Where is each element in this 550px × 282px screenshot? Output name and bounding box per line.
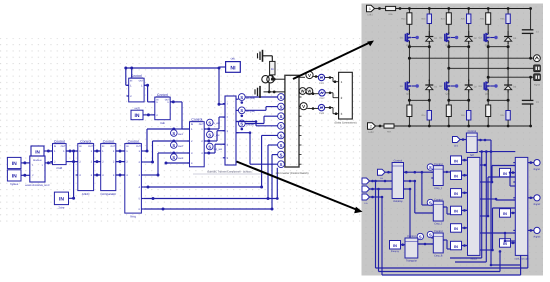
svg-text:Control: Control [54, 139, 65, 143]
output connector Right1 [534, 160, 541, 171]
wire right bus vC [490, 140, 521, 266]
wire mesh h [443, 240, 450, 249]
wire NI vertical [218, 67, 226, 106]
input block IN5 [451, 224, 462, 233]
svg-text:Q2L: Q2L [446, 92, 451, 95]
svg-text:OUT: OUT [199, 123, 204, 126]
wire IN1 out [462, 159, 468, 162]
controlled source inq_ww [207, 143, 223, 151]
wire IN 2cire up [69, 151, 76, 200]
wire IN4 out [462, 209, 468, 212]
transistor Q3L [478, 81, 497, 96]
gray sub-circuit panel background [362, 4, 544, 276]
wire AnDC-Comparator r2 [94, 160, 101, 163]
wire triangular out [418, 243, 434, 246]
input block IN3 [451, 189, 462, 198]
wire AnDC-Comparator r3 [94, 174, 101, 177]
resistor R57 [384, 124, 394, 134]
svg-text:S: S [280, 133, 283, 138]
wire phase line B [449, 67, 534, 70]
svg-text:hystes: hystes [10, 182, 19, 186]
subsystem block gate driver [223, 96, 239, 165]
wire hdf out [477, 139, 491, 142]
wire INm3 out [511, 242, 516, 245]
resistor Rs3b [500, 100, 510, 126]
svg-text:IN: IN [59, 196, 64, 202]
svg-text:IN: IN [130, 79, 133, 82]
caption inverter [275, 172, 308, 175]
svg-text:Modbus: Modbus [33, 159, 42, 162]
wire right bus vB [455, 152, 486, 262]
svg-text:Right3: Right3 [534, 236, 541, 239]
wire row3 net [144, 153, 174, 177]
wire source top [271, 75, 274, 81]
wire driver net b [245, 107, 277, 111]
wire to comparator pin2 [172, 140, 189, 143]
wire phase to inverter [273, 78, 285, 81]
svg-text:S: S [429, 165, 432, 170]
wire comp out3 [204, 144, 225, 154]
svg-text:Q3L: Q3L [485, 92, 490, 95]
resistor R56 [386, 6, 396, 16]
svg-text:freq: freq [131, 214, 137, 218]
svg-text:IN: IN [12, 161, 17, 167]
wire Control1 to Control2 [144, 84, 155, 102]
wire IN3 out [462, 192, 468, 195]
svg-text:S: S [280, 105, 283, 110]
svg-text:S: S [240, 121, 243, 126]
wire leg1 upper [409, 24, 429, 33]
svg-text:Control: Control [103, 139, 114, 143]
wire ADC top out row1 [44, 150, 53, 153]
transistor Q2L [439, 81, 458, 96]
scope probe CH2 [319, 90, 325, 100]
resistor R1 1k [270, 56, 275, 75]
wire leg2 lower rail [447, 92, 470, 102]
wire right bus vA [450, 152, 482, 258]
wire driver net e [236, 120, 278, 126]
svg-text:GaN/SiC Transist Comparison -: GaN/SiC Transist Comparison - Surface.. [207, 171, 253, 174]
diode D3L [504, 80, 517, 93]
subsystem block Control5 Comparator [99, 139, 119, 195]
wire var out1 [404, 171, 434, 174]
svg-text:V: V [302, 104, 305, 109]
wire left bus v3 [382, 197, 521, 275]
svg-text:hdf: hdf [470, 154, 474, 157]
subsystem block Comp_2 [431, 198, 445, 225]
wire to comparator pin1 [172, 128, 189, 131]
wire leg2 diode drop [468, 47, 470, 81]
wire V1 to CH1 [313, 75, 318, 78]
wattmeter W1 [299, 88, 306, 95]
wire leg2 upper [449, 24, 469, 33]
output connector Right2 [534, 195, 541, 206]
wire transformer bottom [268, 83, 270, 92]
svg-text:OBL: OBL [231, 57, 236, 60]
svg-text:IN: IN [454, 245, 458, 249]
resistor Rs2b [461, 100, 471, 126]
wire leg1 lower rail [408, 92, 431, 102]
svg-text:IN: IN [191, 123, 194, 126]
wire bottom return b [499, 250, 502, 271]
transistor Q1H [400, 32, 419, 47]
resistor Rg3a [480, 9, 491, 25]
subsystem block Control1 (filter) [127, 74, 147, 102]
wire to comparator pin4 [165, 162, 190, 165]
controlled source ww1 [171, 129, 184, 136]
resistor Rs1a [407, 100, 412, 126]
svg-text:Control: Control [80, 139, 91, 143]
svg-text:Right2: Right2 [534, 203, 541, 206]
svg-text:IN: IN [35, 150, 40, 155]
input block INm2 [500, 209, 511, 218]
controlled source ww2 [171, 142, 184, 149]
svg-text:IN: IN [454, 192, 458, 196]
svg-text:1: 1 [369, 7, 371, 11]
subsystem block MddS [466, 157, 483, 260]
wire IN uu(t) out [143, 113, 155, 116]
svg-text:S: S [280, 95, 283, 100]
wire driver net d [236, 131, 278, 164]
wire phase B out [298, 93, 301, 95]
wire DC link right [530, 9, 532, 27]
output connector O3 [534, 74, 541, 87]
wire phase C out [298, 108, 301, 110]
wire freq to triangular [401, 243, 406, 246]
inverter subcircuit block (Control Switch) [285, 75, 302, 167]
svg-text:S: S [280, 162, 283, 167]
svg-text:S: S [280, 114, 283, 119]
controlled source s_comp2 [427, 199, 433, 205]
wire row4 long [144, 135, 278, 188]
svg-text:mult: mult [56, 166, 62, 170]
input terminal block IN A (setpoint) [7, 157, 21, 168]
controlled source s_comp1 [427, 164, 433, 170]
svg-text:(Delta Connections): (Delta Connections) [334, 122, 356, 125]
subsystem block hdf [464, 130, 479, 157]
wire IN B out [21, 174, 30, 177]
svg-text:S: S [172, 155, 175, 160]
svg-text:V: V [308, 73, 311, 78]
svg-text:S: S [208, 132, 211, 137]
svg-text:2: 2 [370, 124, 372, 128]
svg-text:Q1L: Q1L [406, 92, 411, 95]
wire mult to AnDC r1 [66, 150, 78, 153]
svg-text:S: S [240, 108, 243, 113]
subsystem block Comp_B [431, 230, 445, 257]
svg-text:S: S [419, 234, 422, 239]
input block IN4 [451, 206, 462, 215]
subsystem block Control7 PWM comparator [187, 118, 206, 167]
arrow callout to control panel [237, 162, 363, 214]
resistor Rs3a [486, 100, 491, 126]
controlled source WF(yW) [238, 107, 255, 117]
wire S8 drop [276, 168, 279, 200]
svg-text:IN: IN [454, 210, 458, 214]
NI block U1 [226, 57, 241, 72]
wire mesh e [509, 171, 516, 186]
svg-text:r_ww: r_ww [213, 134, 219, 137]
svg-text:IN: IN [503, 212, 507, 216]
svg-text:OUT: OUT [110, 145, 115, 148]
wire CH2 to delta pin2 [325, 92, 338, 98]
svg-text:Inq_ww: Inq_ww [214, 148, 223, 151]
resistor Rd2a [461, 9, 471, 24]
svg-text:S: S [172, 143, 175, 148]
wire bottom return a [527, 255, 529, 268]
svg-text:OUT: OUT [139, 79, 144, 82]
input connector Lin2 [378, 169, 393, 180]
input block IN1 [451, 156, 462, 165]
wire comp out2 [204, 131, 225, 143]
svg-text:S: S [280, 143, 283, 148]
wire out1 [528, 161, 534, 164]
capacitor C2 [522, 77, 540, 126]
input block Frequency IN [390, 241, 401, 254]
svg-text:S: S [240, 95, 243, 100]
svg-text:Control: Control [434, 163, 443, 166]
input block INm3 [500, 239, 511, 248]
wire mesh c [482, 164, 486, 167]
svg-text:S: S [208, 120, 211, 125]
svg-text:Comparator: Comparator [100, 192, 116, 196]
svg-text:OUT: OUT [61, 145, 66, 148]
wire driver net c [245, 116, 277, 123]
input terminal block IN B (feedback) [7, 170, 21, 186]
subsystem block Variable [390, 160, 405, 203]
wire Control2 out [170, 100, 187, 129]
subsystem block Comp_1 [431, 163, 445, 190]
wire mdds to out block c [482, 232, 515, 235]
arrow callout to power panel [293, 41, 374, 80]
voltmeter V1 [306, 71, 313, 78]
scope probe CH1 [318, 74, 324, 85]
input connector Left6 [362, 194, 383, 205]
svg-text:Cmp_2: Cmp_2 [434, 223, 443, 226]
wire leg3 upper [488, 24, 508, 33]
svg-text:ww1: ww1 [178, 133, 184, 136]
svg-text:IN: IN [135, 113, 140, 119]
controlled source WF(WK) [238, 94, 255, 104]
wire leg2 mid rail [447, 43, 470, 48]
wire right bus h [479, 150, 515, 153]
wire V2 to CH3 [307, 107, 318, 110]
svg-text:MddS: MddS [470, 257, 477, 260]
diode D3H [504, 31, 517, 44]
wire driver net a [245, 96, 277, 98]
svg-text:Triangular: Triangular [406, 260, 417, 263]
wire out3 [528, 229, 534, 232]
wire into Control1 [126, 68, 132, 85]
wire CH1 to delta pin1 [325, 76, 339, 83]
wire mdds to out block a [482, 166, 515, 184]
svg-text:1k: 1k [271, 67, 275, 71]
ground G2 [255, 86, 260, 98]
subsystem block Triangular [403, 235, 420, 262]
svg-text:IN: IN [102, 145, 105, 148]
svg-text:IN: IN [393, 244, 397, 248]
input connector Left0 [453, 137, 467, 148]
wire leg3 lower rail [487, 92, 510, 102]
svg-text:NI: NI [230, 66, 236, 72]
svg-text:outh_out.uph: outh_out.uph [515, 257, 530, 260]
wire top net to NI [124, 67, 220, 70]
scope probe CH3 [318, 104, 324, 115]
svg-text:Variabay: Variabay [393, 200, 403, 203]
svg-text:v_ww: v_ww [214, 122, 220, 125]
svg-text:Cmp_1: Cmp_1 [434, 187, 443, 190]
wire var out3 [404, 188, 434, 244]
svg-text:Left2: Left2 [368, 131, 374, 134]
svg-text:Control: Control [128, 139, 139, 143]
controlled source r_ww [207, 131, 220, 138]
controlled source s_tri [417, 233, 423, 239]
wire mesh g [443, 207, 450, 214]
svg-text:IN: IN [503, 242, 507, 246]
svg-text:ww2: ww2 [178, 145, 184, 148]
svg-text:S: S [280, 124, 283, 129]
wire row2 net [144, 141, 174, 164]
wire out2 [528, 197, 534, 200]
svg-text:IN: IN [454, 227, 458, 231]
wire mesh f [443, 171, 450, 173]
wire IN6 out [462, 244, 468, 247]
svg-text:IN: IN [54, 145, 57, 148]
transformer T1 [262, 76, 274, 83]
subsystem block Control6 freq [123, 139, 144, 218]
output connector O2 [534, 65, 541, 72]
controlled source column S1-S8 [278, 94, 285, 168]
diode D1L [425, 80, 438, 93]
wire W to CH2 [306, 92, 319, 95]
wire mdds to out block b [482, 198, 515, 201]
svg-text:W: W [308, 89, 312, 94]
transistor Q1L [400, 81, 419, 96]
caption comparison [193, 171, 268, 174]
capacitor C1 [522, 27, 540, 59]
svg-text:S: S [429, 232, 432, 237]
svg-text:IN: IN [503, 172, 507, 176]
svg-text:S: S [280, 153, 283, 158]
wire to comparator pin3 [172, 152, 189, 155]
ground G1 [258, 50, 273, 62]
wire IN5 out [462, 227, 468, 230]
svg-text:Control: Control [434, 230, 443, 233]
wire mesh b [482, 208, 515, 251]
input connector J2 [368, 123, 385, 134]
wire INm2 out [511, 212, 516, 215]
input connector Left4 [362, 178, 392, 184]
wire phase line A [409, 57, 533, 60]
svg-text:Left1: Left1 [367, 14, 373, 17]
resistor Rd3a [500, 9, 510, 24]
svg-text:winREVERSING_AN.C: winREVERSING_AN.C [25, 184, 50, 187]
input block INm1 [500, 168, 511, 177]
wire leg3 mid rail [487, 43, 510, 48]
wire comp out1 [204, 117, 225, 131]
diode D2L [465, 80, 478, 93]
wire leg3 phase drop [487, 47, 490, 81]
svg-text:Lin1: Lin1 [454, 145, 459, 148]
diode D2H [465, 31, 478, 44]
wire leg1 phase drop [408, 47, 411, 81]
wire leg2 phase drop [447, 47, 450, 81]
svg-text:Control: Control [394, 160, 403, 163]
wire var out2 [404, 180, 434, 213]
svg-text:Control: Control [407, 235, 416, 238]
delta connection block [334, 72, 356, 124]
subsystem block Control4 AnDC [76, 139, 96, 195]
wire leg3 diode drop [507, 47, 509, 81]
wire row1 net [144, 129, 174, 153]
svg-text:IN: IN [12, 173, 17, 179]
transistor Q2H [439, 32, 458, 47]
wire DC- bus [394, 125, 532, 128]
wire comp2 feed [422, 172, 433, 205]
resistor Rs2a [446, 100, 451, 126]
ADC sub-block winREVERSING [25, 146, 50, 187]
subsystem block Control2 nuk [153, 93, 173, 125]
svg-text:uu(t): uu(t) [134, 107, 139, 110]
wire left bus v2 [379, 189, 501, 272]
controlled source v_ww [207, 119, 221, 126]
wire row6 long [144, 155, 278, 211]
input block IN2 [451, 171, 462, 180]
wire mult-AnDC r2 [66, 160, 78, 163]
voltmeter V2 [300, 103, 307, 110]
svg-text:IN: IN [454, 175, 458, 179]
svg-text:OUT: OUT [136, 145, 141, 148]
wire mesh d [504, 233, 516, 242]
wire Comp-freq r1 [116, 150, 125, 153]
svg-text:CH3: CH3 [319, 112, 325, 115]
resistor Rs1b [422, 100, 432, 126]
svg-text:3ph Inverter (Control Switch): 3ph Inverter (Control Switch) [275, 172, 308, 175]
svg-text:Cmp_B: Cmp_B [434, 255, 443, 258]
subsystem block output latch [513, 157, 529, 260]
controlled source ww3 [171, 154, 184, 161]
wire left bus v1 [376, 181, 528, 268]
diode D1H [425, 31, 438, 44]
transistor Q3H [478, 32, 497, 47]
svg-text:S: S [172, 131, 175, 136]
svg-text:2cire: 2cire [58, 205, 65, 209]
output connector Right3 [534, 227, 541, 238]
svg-text:CH2: CH2 [319, 97, 325, 100]
resistor Rg2a [441, 9, 452, 25]
controlled source s_comp3 [427, 231, 433, 237]
svg-text:Control: Control [468, 130, 477, 133]
svg-text:Right1: Right1 [534, 168, 541, 171]
svg-text:ww3: ww3 [178, 157, 184, 160]
wire Comp-freq r2 [116, 160, 125, 163]
wattmeter W2 [306, 88, 313, 95]
wire CH3 to delta pin3 [325, 106, 339, 115]
svg-text:IN: IN [126, 145, 129, 148]
wire phase A out [299, 76, 305, 78]
input terminal block IN 2cire [54, 192, 68, 209]
resistor Rg1a [401, 9, 412, 25]
svg-text:IN: IN [79, 145, 82, 148]
wire bottom return c [520, 255, 522, 275]
svg-text:IN: IN [454, 159, 458, 163]
svg-text:Control: Control [434, 198, 443, 201]
wire neutral to inverter [264, 91, 285, 94]
wire AnDC-Comparator r1 [94, 150, 101, 153]
input connector J1 [367, 5, 386, 16]
svg-text:AnDC: AnDC [82, 192, 91, 196]
controlled source wHrWK [238, 120, 254, 130]
